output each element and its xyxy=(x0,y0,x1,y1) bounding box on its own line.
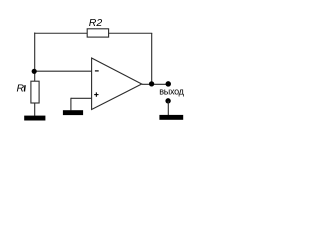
node ground terminal xyxy=(165,98,170,103)
svg-text:R: R xyxy=(17,83,25,95)
pin label minus (inverting input) xyxy=(95,70,99,72)
ground (non-inverting input) xyxy=(63,110,83,115)
wire feedback top-right horizontal (R2 right to output corner) xyxy=(108,32,152,34)
wire ground terminal vertical xyxy=(167,101,169,116)
wire non-inverting input horizontal xyxy=(71,97,92,99)
wire feedback right vertical xyxy=(151,33,153,84)
wire output horizontal xyxy=(142,83,169,85)
resistor R2 xyxy=(87,29,108,37)
ground (below R1) xyxy=(24,116,45,121)
ground (output terminal) xyxy=(159,115,183,120)
node output terminal xyxy=(166,81,172,87)
pin label plus (non-inverting input) xyxy=(94,94,98,96)
wire inverting input horizontal xyxy=(35,70,92,72)
wire non-inverting input vertical to ground xyxy=(70,98,72,111)
resistor R1 xyxy=(31,81,39,103)
wire feedback top-left horizontal (inverting node to R2 left) xyxy=(34,32,87,34)
svg-text:R2: R2 xyxy=(89,17,103,29)
svg-text:выход: выход xyxy=(159,87,184,97)
op-amp U1 xyxy=(92,58,142,110)
node junction at output xyxy=(149,81,154,86)
wire left vertical (top corner down to R1) xyxy=(34,33,36,82)
node junction at inverting input xyxy=(32,69,37,74)
wire R1 bottom to ground xyxy=(34,103,36,116)
